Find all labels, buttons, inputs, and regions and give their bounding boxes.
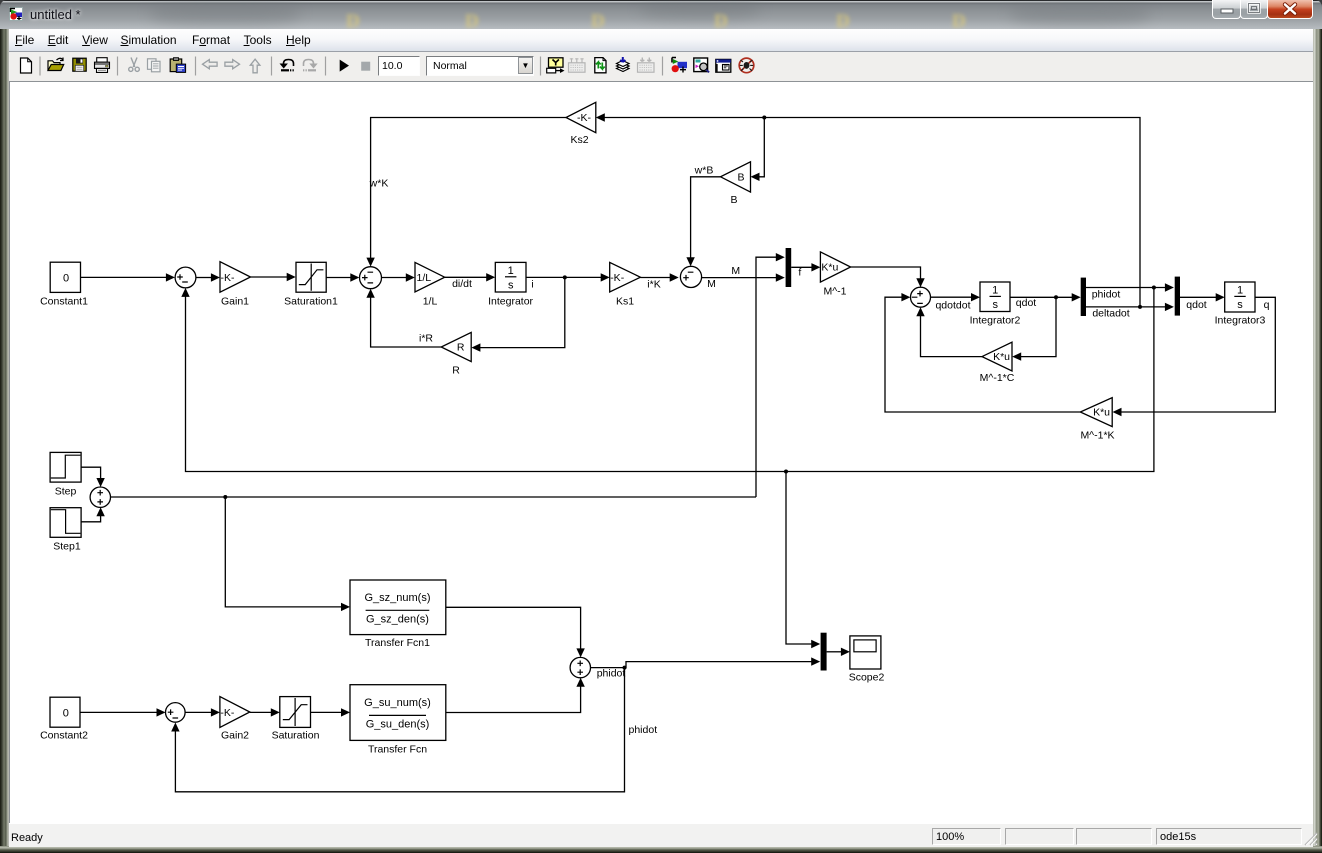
svg-text:R: R <box>452 365 460 377</box>
block gain R <box>441 332 471 376</box>
wire Mux3 to Scope2 <box>827 648 850 656</box>
open icon <box>48 61 60 71</box>
svg-text:Saturation: Saturation <box>272 730 320 742</box>
svg-text:0: 0 <box>63 708 69 720</box>
svg-text:di/dt: di/dt <box>452 278 472 290</box>
wire Mux2 to Integrator3 <box>1180 293 1225 301</box>
label deltadot <box>1092 308 1129 320</box>
svg-text:Ks2: Ks2 <box>570 134 588 146</box>
svg-text:Transfer Fcn: Transfer Fcn <box>368 744 427 756</box>
sum Sum6 <box>90 487 110 507</box>
label i*R <box>419 333 433 345</box>
wire scope branch down to Mux3 top <box>784 470 820 649</box>
separator <box>662 57 664 76</box>
label phidot at Sum7 <box>597 668 626 680</box>
svg-text:G_su_den(s): G_su_den(s) <box>366 719 430 731</box>
svg-text:Integrator3: Integrator3 <box>1215 315 1266 327</box>
svg-text:K*u: K*u <box>821 262 838 274</box>
toolbar <box>9 52 1313 82</box>
maximize button <box>1240 0 1268 19</box>
svg-text:i*K: i*K <box>647 279 660 291</box>
svg-text:-K-: -K- <box>220 707 235 719</box>
print icon <box>97 58 108 63</box>
wire R to Sum2 bottom <box>366 289 441 347</box>
wire Ks2 output w*K to Sum2 top <box>366 118 566 267</box>
svg-text:B: B <box>730 194 737 206</box>
svg-text:1: 1 <box>1237 285 1243 297</box>
block Step1 <box>50 508 81 553</box>
svg-text:B: B <box>737 172 744 184</box>
wire Step to Sum6 top <box>81 467 105 487</box>
svg-text:R: R <box>457 342 465 354</box>
svg-text:Saturation1: Saturation1 <box>284 296 338 308</box>
svg-text:deltadot: deltadot <box>1092 308 1129 320</box>
label i <box>531 279 533 291</box>
svg-text:G_sz_den(s): G_sz_den(s) <box>366 614 429 626</box>
svg-text:f: f <box>798 267 801 279</box>
wire phidot Demux to Mux2 with junction <box>1086 283 1174 291</box>
stop button icon <box>361 62 370 71</box>
svg-text:s: s <box>508 280 514 292</box>
wire Sum2 to 1/L <box>382 273 415 281</box>
svg-text:w*K: w*K <box>369 178 389 190</box>
wire Step1 to Sum6 bottom <box>81 507 105 522</box>
status bar <box>9 823 1313 847</box>
svg-text:K*u: K*u <box>1093 407 1110 419</box>
block Saturation1 <box>284 262 338 307</box>
redo icon <box>304 60 314 67</box>
wire phidot feedback down to Sum4 <box>171 668 624 792</box>
block Integrator3 <box>1215 282 1266 327</box>
wire Constant1 to Sum1 <box>81 273 175 281</box>
menu bar <box>9 29 1313 52</box>
svg-text:-K-: -K- <box>221 272 236 284</box>
block Ks2 <box>566 102 596 146</box>
wire M^-1 to Sum5 top <box>851 267 925 287</box>
up arrow icon <box>250 59 260 73</box>
mux Mux2 <box>1175 277 1180 316</box>
wire deltadot up and across to Ks2 <box>596 113 1142 309</box>
separator <box>195 57 197 76</box>
wire Integrator2 to Demux with junction <box>1010 293 1081 301</box>
separator <box>39 57 41 76</box>
svg-text:Step1: Step1 <box>53 541 81 553</box>
svg-text:phidot: phidot <box>597 668 626 680</box>
svg-text:s: s <box>1237 299 1243 311</box>
block Transfer Fcn <box>350 685 446 756</box>
wire M^-1*K output to Sum5 left <box>885 293 1080 412</box>
wire w*B from B to Sum3 top <box>686 177 720 266</box>
svg-text:qdotdot: qdotdot <box>935 300 970 312</box>
wire M^-1*C to Sum5 bottom <box>916 307 982 356</box>
svg-text:Constant2: Constant2 <box>40 730 88 742</box>
svg-text:-K-: -K- <box>610 272 625 284</box>
svg-text:Transfer Fcn1: Transfer Fcn1 <box>365 637 430 649</box>
model browser find icon <box>694 58 708 72</box>
block gain M^-1 <box>820 252 850 298</box>
block Transfer Fcn1 <box>350 580 446 649</box>
svg-text:-K-: -K- <box>577 112 592 124</box>
svg-text:M^-1*C: M^-1*C <box>980 372 1015 384</box>
wire Mux1 to gain M^-1 <box>791 263 820 271</box>
disabled grid icon 2 <box>638 58 655 73</box>
wire Sum1 to Gain1 <box>196 273 220 281</box>
block Scope2 <box>849 636 885 684</box>
label M below wire <box>707 278 716 290</box>
left frame <box>0 29 9 846</box>
sum Sum3 <box>680 266 701 287</box>
label phidot demux <box>1092 289 1121 301</box>
sum Sum5 <box>911 287 931 307</box>
wire Sum4 to Gain2 <box>185 708 220 716</box>
svg-text:Integrator: Integrator <box>488 296 533 308</box>
svg-text:1/L: 1/L <box>423 296 438 308</box>
wire i branch to gain R <box>471 277 564 351</box>
block Gain1 <box>220 262 251 308</box>
block gain 1/L <box>415 262 445 307</box>
wire Sum7 to Mux3 bottom with junction <box>591 657 821 669</box>
simulink library browser icon <box>672 58 676 63</box>
build all icon <box>617 57 630 72</box>
svg-text:M: M <box>707 278 716 290</box>
wire Integrator to Ks1 with branch junction <box>526 273 610 281</box>
wire branch down to gain B input <box>751 118 765 182</box>
wire Transfer Fcn to Sum7 bottom <box>446 678 585 713</box>
undo icon <box>284 60 294 67</box>
label w*K <box>369 178 389 190</box>
wire Gain1 to Saturation1 <box>251 273 296 281</box>
svg-text:1: 1 <box>508 265 514 277</box>
minimize button <box>1212 0 1241 19</box>
block Constant1 <box>40 262 88 307</box>
label f <box>798 267 801 279</box>
library link icon <box>549 58 564 67</box>
cut icon disabled <box>129 58 140 72</box>
svg-text:Ks1: Ks1 <box>616 296 634 308</box>
label di/dt <box>452 278 472 290</box>
svg-text:i: i <box>531 279 533 291</box>
block Integrator2 <box>970 282 1021 327</box>
block Ks1 <box>610 262 641 307</box>
right frame <box>1313 29 1322 846</box>
demux Demux <box>1081 278 1086 316</box>
svg-text:M^-1: M^-1 <box>823 286 846 298</box>
title bar <box>0 0 1322 29</box>
new file icon <box>21 58 32 73</box>
svg-text:Gain2: Gain2 <box>221 730 249 742</box>
label phidot vertical <box>629 724 658 736</box>
separator <box>117 57 119 76</box>
wire deltadot Demux to Mux2 <box>1086 303 1174 311</box>
label i*K <box>647 279 660 291</box>
close button <box>1267 0 1313 19</box>
sum Sum7 <box>570 657 590 677</box>
wire Constant2 to Sum4 <box>80 708 166 716</box>
label q <box>1264 299 1270 311</box>
forward arrow icon <box>225 60 240 69</box>
block Step <box>50 452 81 497</box>
svg-text:Constant1: Constant1 <box>40 296 88 308</box>
sum Sum4 <box>166 703 186 723</box>
svg-text:phidot: phidot <box>629 724 658 736</box>
block Constant2 <box>40 697 88 741</box>
separator <box>325 57 327 76</box>
svg-text:qdot: qdot <box>1016 297 1037 309</box>
wire qdot branch to M^-1*C <box>1012 297 1056 361</box>
separator after combo <box>540 57 542 76</box>
wire Transfer Fcn1 to Sum7 top <box>446 607 585 657</box>
copy icon disabled <box>148 59 161 72</box>
svg-text:Gain1: Gain1 <box>221 296 249 308</box>
svg-text:phidot: phidot <box>1092 289 1121 301</box>
svg-text:0: 0 <box>63 273 69 285</box>
block Gain2 <box>220 697 250 742</box>
disabled grid icon 1 <box>569 58 586 72</box>
bottom frame <box>0 846 1322 853</box>
label qdot right <box>1186 299 1207 311</box>
mux Mux1 <box>786 248 792 287</box>
wire Saturation to Transfer Fcn <box>311 708 351 716</box>
wire Ks1 to Sum3 <box>640 273 678 281</box>
wire branch down to Transfer Fcn1 <box>225 497 350 611</box>
toggle model browser icon <box>716 59 731 72</box>
window icon (Simulink) <box>9 7 23 21</box>
svg-text:1/L: 1/L <box>417 272 432 284</box>
sum Sum1 <box>175 267 196 288</box>
paste icon <box>170 59 182 72</box>
svg-text:K*u: K*u <box>993 351 1010 363</box>
svg-text:G_sz_num(s): G_sz_num(s) <box>364 592 430 604</box>
svg-text:1: 1 <box>992 285 998 297</box>
wire phidot feedback to Sum1 bottom <box>181 288 1154 472</box>
sum Sum2 <box>360 267 382 289</box>
label qdot left <box>1016 297 1037 309</box>
label M above wire <box>731 265 740 277</box>
svg-text:qdot: qdot <box>1186 299 1207 311</box>
wire Sum5 to Integrator2 <box>931 293 980 301</box>
wire 1/L to Integrator <box>445 273 496 281</box>
wire Saturation1 to Sum2 <box>326 273 359 281</box>
block Saturation <box>272 697 320 742</box>
wire Integrator3 to M^-1*K <box>1113 297 1276 416</box>
back arrow icon <box>203 60 218 69</box>
wire Gain2 to Saturation <box>250 708 280 716</box>
label w*B <box>694 165 714 177</box>
block gain B <box>721 162 751 206</box>
block Integrator <box>488 262 533 307</box>
wire Sum3 to Mux1 <box>702 273 785 281</box>
svg-text:Step: Step <box>55 486 77 498</box>
play button icon <box>340 60 349 72</box>
svg-text:Integrator2: Integrator2 <box>970 315 1021 327</box>
svg-text:q: q <box>1264 299 1270 311</box>
svg-text:G_su_num(s): G_su_num(s) <box>364 697 431 709</box>
svg-text:M^-1*K: M^-1*K <box>1080 430 1114 442</box>
save icon <box>73 58 86 71</box>
svg-text:M: M <box>731 265 740 277</box>
svg-text:s: s <box>992 299 998 311</box>
separator <box>271 57 273 76</box>
block gain M^-1*K <box>1080 398 1114 442</box>
svg-text:i*R: i*R <box>419 333 433 345</box>
debug disabled icon <box>739 58 754 73</box>
update diagram icon <box>595 58 606 73</box>
mux Mux3 <box>821 633 827 671</box>
svg-text:Scope2: Scope2 <box>849 672 885 684</box>
wire Sum6 output across with junction <box>111 495 757 499</box>
wire step signal up to Mux1 top <box>756 253 785 497</box>
label qdotdot <box>935 300 970 312</box>
block gain M^-1*C <box>980 342 1015 384</box>
svg-text:w*B: w*B <box>694 165 714 177</box>
